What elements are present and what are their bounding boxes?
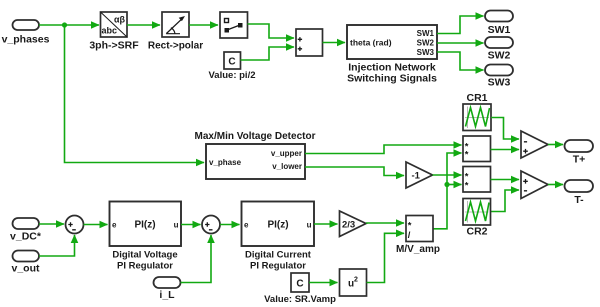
wire sum to injection network bbox=[323, 42, 346, 44]
svg-text:SW2: SW2 bbox=[488, 50, 511, 62]
svg-text:-1: -1 bbox=[412, 171, 421, 182]
wire v_upper to product1 bbox=[305, 145, 462, 154]
comparator 2 bbox=[521, 171, 548, 199]
svg-text:i_L: i_L bbox=[159, 289, 175, 301]
svg-text:Rect->polar: Rect->polar bbox=[148, 41, 203, 52]
wire C to u2 bbox=[309, 282, 338, 284]
svg-text:/: / bbox=[408, 230, 411, 241]
wire PI1 to sum2 bbox=[181, 224, 201, 226]
comparator 1 bbox=[521, 131, 548, 158]
svg-text:v_upper: v_upper bbox=[271, 149, 302, 158]
constant C SR.Vamp bbox=[264, 273, 336, 305]
svg-text:v_lower: v_lower bbox=[272, 162, 302, 171]
wire v_phases to 3ph->SRF bbox=[39, 24, 99, 26]
wire sum1 to PI1 bbox=[84, 224, 108, 226]
svg-text:PI(z): PI(z) bbox=[267, 220, 288, 231]
wire SW2 bbox=[437, 42, 484, 44]
math function u^2 bbox=[340, 269, 367, 296]
svg-text:Max/Min Voltage Detector: Max/Min Voltage Detector bbox=[195, 131, 316, 142]
gain -1 bbox=[406, 162, 433, 188]
repeating sequence CR1 bbox=[463, 92, 491, 131]
svg-text:Value: SR.Vamp: Value: SR.Vamp bbox=[264, 294, 336, 305]
wire C to sum bbox=[241, 47, 295, 60]
svg-text:3ph->SRF: 3ph->SRF bbox=[89, 40, 139, 52]
svg-text:C: C bbox=[296, 279, 303, 290]
svg-text:u: u bbox=[307, 221, 312, 230]
wire SW3 bbox=[437, 52, 484, 70]
wire comparator1 to T+ bbox=[548, 144, 563, 146]
svg-text:v_out: v_out bbox=[11, 262, 40, 274]
sum circle 1 bbox=[66, 216, 84, 234]
block Rect->polar bbox=[148, 12, 203, 52]
svg-text:SW2: SW2 bbox=[417, 39, 435, 48]
wire gain 2/3 to M/V_amp bbox=[366, 222, 404, 224]
inport i_L bbox=[154, 277, 181, 301]
svg-text:PI(z): PI(z) bbox=[134, 220, 155, 231]
svg-text:2: 2 bbox=[354, 277, 358, 284]
constant C pi/2 bbox=[209, 52, 256, 81]
wire i_L to sum2 bbox=[181, 235, 212, 283]
wire comparator2 to T- bbox=[548, 184, 563, 186]
svg-text:SW1: SW1 bbox=[488, 24, 511, 36]
wire product1 to comparator1 bbox=[491, 149, 520, 151]
svg-text:T+: T+ bbox=[573, 153, 586, 165]
wire junction to product2 input2 bbox=[447, 184, 462, 186]
svg-text:Switching Signals: Switching Signals bbox=[347, 73, 437, 85]
wire switch to sum bbox=[248, 24, 295, 38]
wire gain -1 to product2 input1 bbox=[433, 174, 462, 176]
svg-text:SW1: SW1 bbox=[417, 29, 435, 38]
svg-text:T-: T- bbox=[574, 194, 584, 206]
wire Rect->polar to switch bbox=[189, 24, 218, 26]
wire CR1 to comparator1 bbox=[491, 118, 519, 140]
wire 3ph->SRF to Rect->polar bbox=[127, 24, 160, 26]
wire u2 to M/V_amp bbox=[367, 233, 405, 282]
product block 2 bbox=[463, 167, 491, 193]
subsystem Max/Min Voltage Detector bbox=[195, 131, 316, 179]
wire v_out to sum1 bbox=[39, 235, 75, 256]
svg-text:SW3: SW3 bbox=[488, 76, 511, 88]
wire CR2 to comparator2 bbox=[491, 190, 520, 212]
svg-text:Digital Voltage: Digital Voltage bbox=[112, 250, 177, 261]
outport T+ bbox=[565, 140, 594, 165]
svg-text:CR2: CR2 bbox=[466, 225, 487, 237]
svg-text:e: e bbox=[244, 221, 249, 230]
svg-text:Value: pi/2: Value: pi/2 bbox=[209, 70, 256, 81]
sum circle 2 bbox=[202, 216, 220, 234]
divide block M/V_amp bbox=[396, 216, 440, 255]
sum block (theta + pi/2) bbox=[296, 29, 323, 56]
svg-text:CR1: CR1 bbox=[466, 92, 487, 104]
outport SW3 bbox=[485, 65, 513, 89]
svg-text:v_phase: v_phase bbox=[209, 158, 242, 167]
manual switch block bbox=[220, 12, 248, 38]
outport SW1 bbox=[485, 11, 513, 37]
outport SW2 bbox=[485, 37, 513, 62]
inport v_phases bbox=[2, 20, 50, 45]
PI(z) Digital Voltage Regulator bbox=[110, 202, 182, 272]
wire PI2 to gain 2/3 bbox=[314, 223, 338, 225]
wire junction down to detector bbox=[65, 25, 205, 163]
svg-text:αβ: αβ bbox=[114, 14, 126, 24]
junction on v_phases wire bbox=[62, 22, 67, 27]
svg-text:theta (rad): theta (rad) bbox=[350, 38, 392, 48]
svg-text:C: C bbox=[228, 57, 235, 68]
product block 1 bbox=[463, 136, 491, 162]
junction on M wire bbox=[444, 182, 449, 187]
block 3ph->SRF bbox=[89, 12, 139, 52]
svg-text:e: e bbox=[112, 221, 117, 230]
svg-text:2/3: 2/3 bbox=[342, 219, 355, 230]
svg-text:*: * bbox=[465, 150, 469, 161]
outport T- bbox=[565, 180, 594, 206]
svg-text:*: * bbox=[465, 180, 469, 191]
repeating sequence CR2 bbox=[463, 199, 491, 238]
gain 2/3 bbox=[340, 211, 367, 237]
subsystem Injection Network Switching Signals bbox=[347, 25, 437, 85]
wire sum2 to PI2 bbox=[220, 224, 240, 226]
svg-text:Digital Current: Digital Current bbox=[245, 250, 312, 261]
svg-text:SW3: SW3 bbox=[417, 48, 435, 57]
wire product2 to comparator2 bbox=[491, 179, 520, 181]
svg-text:PI Regulator: PI Regulator bbox=[117, 260, 173, 271]
wire M/V_amp up to products bbox=[433, 153, 462, 229]
svg-text:abc: abc bbox=[102, 25, 118, 35]
inport v_out bbox=[11, 251, 40, 275]
PI(z) Digital Current Regulator bbox=[242, 202, 315, 272]
svg-text:v_DC*: v_DC* bbox=[10, 231, 42, 243]
wire v_DC* to sum1 bbox=[39, 223, 64, 225]
svg-text:M/V_amp: M/V_amp bbox=[396, 244, 440, 255]
inport v_DC* bbox=[10, 218, 42, 243]
svg-text:u: u bbox=[174, 221, 179, 230]
svg-text:PI Regulator: PI Regulator bbox=[250, 260, 306, 271]
svg-text:v_phases: v_phases bbox=[2, 33, 50, 45]
wire SW1 bbox=[437, 16, 484, 34]
wire v_lower to gain -1 bbox=[305, 167, 404, 176]
